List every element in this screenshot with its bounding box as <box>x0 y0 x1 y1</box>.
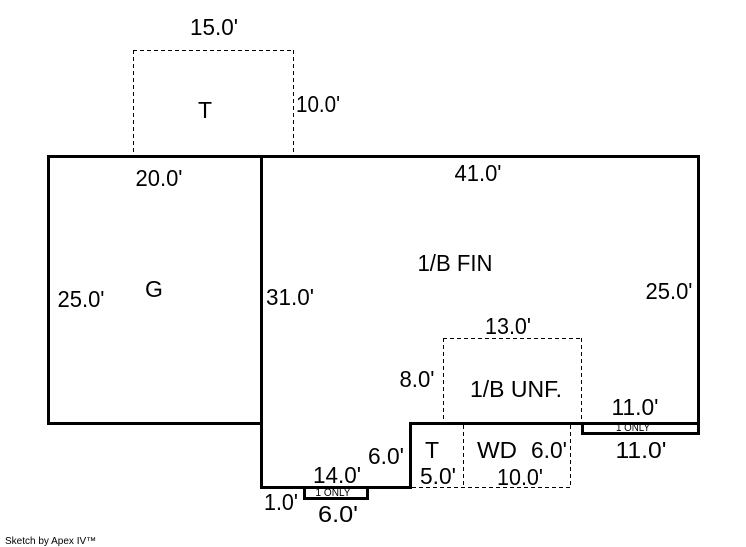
svg-text:6.0': 6.0' <box>531 437 567 463</box>
svg-text:T: T <box>198 97 212 123</box>
svg-text:6.0': 6.0' <box>368 443 404 469</box>
svg-text:8.0': 8.0' <box>400 366 435 392</box>
svg-text:Sketch by Apex IV™: Sketch by Apex IV™ <box>5 536 96 547</box>
svg-text:1/B UNF.: 1/B UNF. <box>470 376 562 402</box>
svg-text:11.0': 11.0' <box>612 394 659 420</box>
svg-text:25.0': 25.0' <box>58 286 105 312</box>
svg-text:1.0': 1.0' <box>264 489 298 515</box>
svg-text:13.0': 13.0' <box>485 313 531 339</box>
svg-text:WD: WD <box>477 437 517 463</box>
svg-text:15.0': 15.0' <box>190 14 238 40</box>
svg-text:20.0': 20.0' <box>136 165 183 191</box>
svg-text:6.0': 6.0' <box>318 501 358 527</box>
svg-text:1/B FIN: 1/B FIN <box>418 250 493 276</box>
svg-text:31.0': 31.0' <box>266 284 314 310</box>
svg-text:41.0': 41.0' <box>455 160 502 186</box>
svg-text:1 ONLY: 1 ONLY <box>316 487 352 499</box>
svg-text:T: T <box>425 437 439 463</box>
svg-text:10.0': 10.0' <box>296 91 340 117</box>
svg-text:14.0': 14.0' <box>313 462 361 488</box>
svg-text:10.0': 10.0' <box>497 464 543 490</box>
svg-text:1 ONLY: 1 ONLY <box>616 422 651 434</box>
svg-text:25.0': 25.0' <box>646 278 693 304</box>
svg-text:11.0': 11.0' <box>616 437 667 463</box>
svg-text:G: G <box>145 276 163 302</box>
svg-text:5.0': 5.0' <box>420 463 456 489</box>
